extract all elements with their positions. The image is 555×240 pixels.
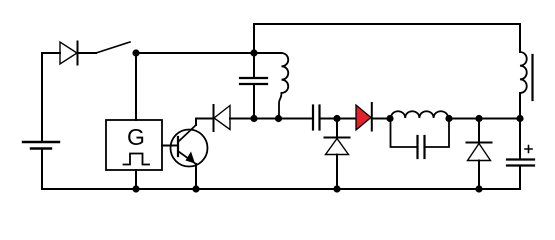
wire top rail down right side bbox=[519, 24, 521, 52]
switch S1 blade bbox=[96, 42, 130, 53]
junction dot D3 bottom bbox=[333, 185, 340, 192]
wire battery to bottom rail bbox=[41, 149, 43, 189]
wire node B to inductor L1 bbox=[254, 52, 282, 54]
diode D4 red bbox=[356, 103, 390, 131]
junction dot D5 bottom bbox=[475, 185, 482, 192]
battery B1 bbox=[23, 142, 59, 149]
capacitor C2 bbox=[313, 106, 356, 130]
junction dot node D bbox=[386, 115, 393, 122]
generator box G bbox=[106, 120, 162, 170]
junction dot node G2 bbox=[516, 115, 523, 122]
junction dot G bottom bbox=[132, 185, 139, 192]
inductor L2 bbox=[391, 111, 448, 118]
inductor L3 bbox=[520, 52, 527, 119]
diode D3 bbox=[325, 119, 350, 190]
wire collector to diode D2 bbox=[196, 118, 214, 120]
wire bottom rail bbox=[42, 188, 520, 190]
junction dot node B3 bbox=[275, 115, 282, 122]
junction dot emitter bottom bbox=[192, 185, 199, 192]
node A junction dot bbox=[132, 49, 139, 56]
diode D5 bbox=[467, 119, 492, 190]
wire base from G to transistor bbox=[162, 145, 178, 147]
wire collector up bbox=[195, 119, 197, 126]
wire top-left horizontal from battery corner to diode D1 bbox=[42, 52, 60, 54]
junction dot node F bbox=[475, 115, 482, 122]
wire node A down to G box bbox=[135, 53, 137, 120]
capacitor C4 polarized bbox=[507, 119, 534, 190]
junction dot node E bbox=[445, 115, 452, 122]
core bar L3 bbox=[531, 55, 533, 100]
junction dot node C bbox=[333, 115, 340, 122]
wire top rail bbox=[254, 23, 520, 25]
diode D1 bbox=[60, 42, 96, 65]
wire G box to bottom rail bbox=[135, 170, 137, 189]
wire node B up to top rail bbox=[253, 24, 255, 53]
transistor Q1 bbox=[171, 125, 208, 167]
inductor L1 bbox=[279, 53, 288, 119]
wire D2 to node B2 bbox=[230, 118, 313, 120]
node B junction dot bbox=[250, 49, 257, 56]
capacitor C1 bbox=[240, 53, 267, 119]
wire left vertical battery top bbox=[41, 53, 43, 141]
wire emitter down bbox=[195, 164, 197, 189]
capacitor C3 bbox=[391, 119, 450, 159]
diode D2 bbox=[214, 105, 231, 131]
wire node E to node F bbox=[449, 118, 520, 120]
svg-text:G: G bbox=[127, 124, 145, 150]
wire node A to node B bbox=[136, 52, 254, 54]
junction dot node B2 bbox=[250, 115, 257, 122]
